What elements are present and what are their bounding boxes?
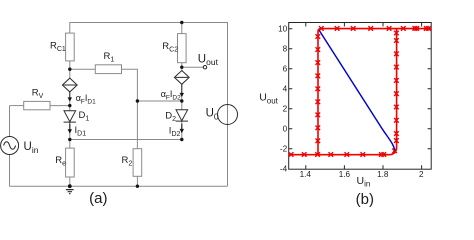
chart b x tick labels	[300, 170, 424, 179]
wire RV to node C	[50, 105, 70, 107]
wire RC2 top	[181, 23, 183, 34]
chart b red hysteresis curve	[289, 29, 432, 155]
svg-text:-2: -2	[280, 145, 288, 154]
wire Uout branch	[182, 66, 203, 68]
junction node Uout	[180, 66, 183, 69]
svg-text:-4: -4	[280, 165, 288, 174]
wire R2 bottom	[136, 176, 138, 186]
ground symbol	[66, 190, 74, 194]
svg-text:RC1: RC1	[50, 41, 66, 54]
junction node R2 bottom	[136, 185, 139, 188]
junction node row right	[180, 138, 183, 141]
arrow of diamond1	[68, 92, 72, 102]
wire left column below source	[9, 154, 11, 186]
wire D1 to row	[69, 122, 71, 148]
source U0 circle	[218, 105, 238, 125]
wire R1 branch to node B	[137, 100, 181, 102]
junction node B	[180, 99, 183, 102]
wire node C segment	[69, 101, 71, 111]
svg-text:1.4: 1.4	[300, 170, 312, 179]
wire RV row	[10, 105, 24, 107]
wire R1 right and down	[122, 69, 138, 148]
source Uin sine	[4, 142, 16, 150]
wire D2 to row	[181, 121, 183, 139]
svg-text:R2: R2	[122, 155, 133, 168]
resistor RC1	[66, 33, 75, 61]
wire R1 row left	[70, 68, 96, 70]
svg-text:αFID2: αFID2	[161, 89, 181, 101]
diode D1	[64, 111, 76, 122]
arrow current ID1	[68, 124, 72, 134]
junction node ground	[68, 184, 72, 188]
svg-text:RC2: RC2	[162, 41, 178, 54]
svg-text:Uout: Uout	[198, 54, 219, 68]
junction node top RC2	[180, 21, 183, 24]
svg-text:RV: RV	[32, 87, 44, 100]
svg-text:4: 4	[283, 85, 288, 94]
svg-text:ID1: ID1	[75, 125, 87, 138]
arrow of diamond2	[180, 84, 184, 97]
chart b y tick labels	[278, 25, 288, 174]
wire Re bottom	[69, 177, 71, 186]
resistor Re	[66, 148, 75, 177]
resistor R2	[133, 149, 142, 177]
resistor RV	[24, 101, 50, 109]
svg-text:(a): (a)	[89, 190, 107, 207]
current source diamond alphaF ID2	[174, 71, 189, 85]
wire row ID1 to ID2	[70, 139, 182, 141]
chart b blue negative-resistance line	[319, 31, 394, 151]
svg-text:Uout: Uout	[259, 92, 278, 106]
diode D2	[176, 110, 188, 121]
junction node R1 column	[136, 99, 139, 102]
svg-text:1.6: 1.6	[339, 170, 351, 179]
resistor R1	[95, 65, 121, 74]
wire node B segment	[181, 97, 183, 110]
svg-text:2: 2	[283, 105, 288, 114]
svg-text:Uin: Uin	[24, 141, 39, 155]
resistor RC2	[178, 34, 187, 63]
svg-text:1.8: 1.8	[377, 170, 389, 179]
svg-text:2: 2	[419, 170, 424, 179]
junction node C	[68, 104, 71, 107]
svg-text:6: 6	[283, 65, 288, 74]
wire left column	[9, 106, 11, 137]
chart b tick marks	[289, 23, 432, 170]
svg-text:R1: R1	[104, 51, 115, 64]
terminal Uout open circle	[203, 66, 206, 69]
wire RC1 bottom to diamond1	[69, 61, 71, 78]
chart b red x markers	[289, 26, 431, 157]
svg-text:D1: D1	[79, 110, 90, 123]
junction node A	[68, 68, 71, 71]
junction node row left	[68, 138, 71, 141]
svg-text:8: 8	[283, 45, 288, 54]
svg-text:D2: D2	[165, 110, 176, 123]
svg-text:10: 10	[278, 25, 288, 34]
svg-text:(b): (b)	[356, 191, 374, 207]
wire bottom rail	[10, 185, 228, 187]
source Uin circle	[1, 137, 19, 155]
svg-text:Uin: Uin	[357, 175, 371, 189]
arrow current ID2	[180, 124, 184, 134]
current source diamond alphaF ID1	[62, 78, 77, 92]
chart b axes box	[289, 23, 432, 170]
wire top rail	[70, 23, 228, 187]
svg-text:U0: U0	[206, 107, 219, 121]
svg-text:0: 0	[283, 125, 288, 134]
wire RC2 bottom to diamond2	[181, 63, 183, 71]
svg-text:αFID1: αFID1	[76, 93, 96, 105]
svg-text:ID2: ID2	[169, 126, 181, 139]
svg-text:Re: Re	[55, 155, 66, 168]
